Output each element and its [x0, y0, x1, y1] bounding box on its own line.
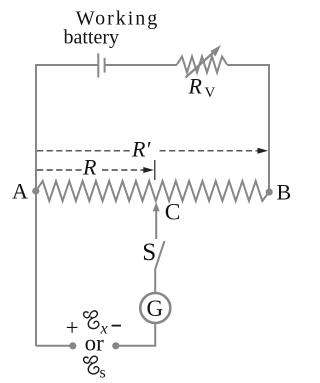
left terminal dot [69, 342, 76, 349]
EMF script-E x (unknown emf) [84, 311, 99, 329]
svg-text:+: + [66, 315, 79, 340]
wire top-left horizontal (battery left lead) [36, 64, 98, 66]
node B (dot) [266, 188, 273, 195]
dashed dimension line R' [37, 148, 268, 154]
galvanometer G (circle) [140, 293, 170, 323]
label G [147, 296, 164, 321]
label A [12, 179, 28, 204]
wire left branch vertical [35, 64, 37, 346]
slide-wire resistor A-B (zigzag) [36, 181, 269, 201]
dashed dimension line R [37, 160, 155, 180]
EMF script-E s (standard emf) [84, 356, 99, 374]
wire battery to RV [106, 64, 177, 66]
label R [82, 155, 97, 180]
subscript x of EMF [100, 321, 108, 338]
svg-text:C: C [165, 200, 181, 226]
subscript s of EMF [100, 365, 106, 382]
svg-text:B: B [277, 179, 292, 204]
label: Working battery [64, 8, 160, 49]
wire galvanometer down to right terminal [119, 324, 155, 346]
node A (dot) [32, 187, 39, 194]
svg-text:A: A [12, 179, 28, 204]
svg-text:R′: R′ [131, 137, 151, 162]
svg-text:R: R [82, 155, 97, 180]
label S [142, 239, 156, 266]
label - (polarity) [112, 325, 122, 327]
label B [277, 179, 292, 204]
wire left branch to left terminal [36, 345, 70, 347]
svg-text:S: S [142, 239, 156, 266]
label R' [131, 137, 151, 162]
battery (working battery) [98, 53, 104, 77]
label or [85, 330, 105, 355]
resistor RV (variable, zigzag) [177, 57, 227, 73]
svg-text:or: or [85, 330, 105, 355]
wire switch to galvanometer [154, 269, 156, 292]
switch S (blade) [155, 241, 164, 269]
label + (polarity) [66, 315, 79, 340]
variable-resistor arrow through RV [186, 45, 222, 78]
right terminal dot [112, 342, 119, 349]
svg-text:battery: battery [64, 27, 120, 49]
label RV [188, 74, 216, 102]
svg-text:R: R [188, 74, 203, 99]
wiper arrow at C (points up to resistor) [153, 202, 160, 239]
wire RV to top-right corner and down (right branch) [227, 65, 269, 192]
svg-text:V: V [205, 85, 216, 101]
svg-text:s: s [100, 365, 106, 382]
label C [165, 200, 181, 226]
svg-text:G: G [147, 296, 164, 321]
